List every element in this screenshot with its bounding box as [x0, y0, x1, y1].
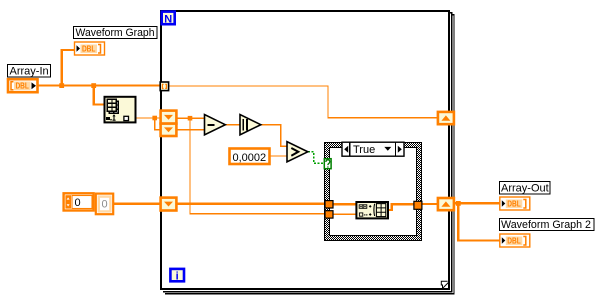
- wire bottom shift register to case tunnel 1 (array): [177, 202, 326, 204]
- wire branch down to Waveform Graph 2 (array): [458, 203, 500, 240]
- wire right shift register to Array-Out (array): [454, 202, 500, 204]
- svg-text:0: 0: [75, 197, 81, 209]
- wire Build Array output to case right tunnel (array): [388, 204, 415, 210]
- right shift register top: [438, 112, 454, 124]
- svg-text:Waveform Graph: Waveform Graph: [76, 27, 155, 39]
- svg-text:i: i: [176, 271, 179, 283]
- label Waveform Graph 2: [500, 219, 595, 232]
- junction dot C: [152, 116, 157, 121]
- wire Array-In to auto-index tunnel (array): [38, 84, 161, 86]
- for-loop resize corner glyph: [441, 281, 449, 289]
- boolean dotted wire greater-than to case selector: [308, 152, 324, 163]
- junction dot B: [91, 83, 96, 88]
- wire constant 0,0002 to greater-than: [270, 155, 288, 157]
- svg-text:DBL: DBL: [507, 200, 521, 209]
- wire array constant to bottom shift register (array): [114, 202, 162, 204]
- svg-text:DBL: DBL: [82, 45, 96, 54]
- indicator terminal DBL Array-Out: [500, 197, 530, 210]
- wire case tunnel 1 to Build Array input 1 (array): [333, 203, 357, 205]
- wire case right tunnel to right shift register (array): [422, 203, 438, 205]
- for-loop frame: [161, 11, 449, 289]
- svg-text:N: N: [164, 13, 172, 25]
- wire shift register top out to subtract: [177, 117, 206, 119]
- svg-text:True: True: [353, 144, 375, 156]
- auto-index tunnel: [160, 82, 168, 91]
- indicator terminal DBL Waveform Graph 2: [500, 234, 530, 247]
- wire abs to greater-than: [261, 125, 288, 146]
- indicator terminal DBL Waveform Graph: [75, 42, 105, 55]
- case tunnel 2: [325, 211, 333, 218]
- for-loop frame shadow line 1: [163, 13, 452, 292]
- case tunnel 1: [325, 201, 333, 208]
- svg-text:0: 0: [102, 199, 108, 211]
- label Array-Out: [500, 182, 551, 195]
- label Waveform Graph: [74, 27, 158, 40]
- wire previous value down to case tunnel 2: [190, 118, 326, 214]
- wire subtract to abs: [225, 124, 241, 126]
- array constant element (grayed): [96, 194, 113, 215]
- count terminal N: [162, 12, 175, 26]
- right shift register bottom: [438, 198, 454, 210]
- junction dot D: [188, 116, 193, 121]
- wire branch up to Waveform Graph terminal: [62, 50, 75, 87]
- svg-text:Waveform Graph 2: Waveform Graph 2: [501, 219, 591, 231]
- svg-text:Array-In: Array-In: [10, 65, 49, 77]
- wire branch down to Index Array: [94, 86, 105, 105]
- wire branch to second shift register cell: [155, 118, 161, 130]
- for-loop frame shadow line 2: [165, 15, 454, 294]
- case selector label True: [342, 142, 404, 156]
- absolute value node: [240, 115, 261, 135]
- svg-text:DBL: DBL: [15, 82, 29, 91]
- left shift register cell 2: [161, 124, 177, 136]
- wire shift register bottom out to subtract: [177, 129, 206, 131]
- control terminal DBL Array-In: [8, 79, 38, 92]
- wire case tunnel 2 to Build Array input 2: [333, 213, 357, 215]
- case structure border: [324, 142, 421, 240]
- svg-text:0,0002: 0,0002: [233, 152, 267, 164]
- bottom left shift register: [161, 198, 177, 211]
- array constant index control: [64, 193, 94, 210]
- numeric constant 0,0002: [230, 149, 270, 165]
- label Array-In: [8, 65, 51, 78]
- greater-than node: [287, 142, 308, 162]
- wire indexed element inside loop (scalar): [169, 86, 438, 118]
- svg-text:Array-Out: Array-Out: [501, 183, 549, 195]
- left shift register cell 1: [161, 111, 177, 124]
- junction dot E: [456, 201, 461, 206]
- iteration terminal i: [170, 269, 184, 283]
- junction dot A: [59, 83, 64, 88]
- wire Index Array output to left shift register: [136, 117, 161, 119]
- case right tunnel: [414, 201, 422, 209]
- Index Array icon: [105, 97, 136, 123]
- Build Array icon: [356, 202, 388, 218]
- subtract node: [205, 115, 226, 135]
- svg-text:DBL: DBL: [507, 237, 521, 246]
- case selector terminal ?: [324, 159, 331, 169]
